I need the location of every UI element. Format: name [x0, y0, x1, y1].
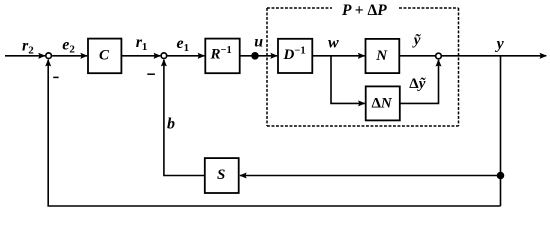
svg-text:Δỹ: Δỹ: [409, 76, 425, 92]
minus sign at junction 2: [147, 73, 155, 75]
svg-text:ΔN: ΔN: [372, 96, 393, 112]
wire: junction 2 to block R^-1: [168, 55, 205, 57]
minus sign at junction 1: [53, 76, 58, 78]
summing junction 3: [436, 53, 442, 59]
svg-text:P + ΔP: P + ΔP: [342, 2, 387, 19]
wire: input r2 into summing junction 1: [5, 55, 45, 57]
wire: junction 1 to block C: [52, 55, 87, 57]
node (dot) on feedback: [497, 172, 505, 180]
block C: [88, 39, 121, 74]
svg-text:r1: r1: [136, 34, 148, 53]
wire: S to junction 2 (signal b): [164, 60, 205, 176]
wire: junction 3 to output y: [442, 55, 546, 57]
svg-text:r2: r2: [22, 37, 34, 56]
svg-text:ỹ: ỹ: [412, 33, 421, 49]
svg-text:u: u: [254, 34, 263, 51]
block S: [205, 158, 239, 193]
node u (dot): [251, 52, 259, 60]
summing junction 2 (node e1): [161, 53, 167, 59]
block dN: [366, 86, 400, 120]
wire: N to summing junction 3: [399, 55, 435, 57]
wire: C to summing junction 2: [121, 55, 160, 57]
wire: D^-1 to N: [312, 55, 364, 57]
wire: dN right, up to junction 3: [400, 60, 439, 104]
wire: branch down from output: [500, 56, 502, 206]
dashed box P + dP: [267, 8, 459, 126]
wire: branch at w down to dN: [331, 56, 365, 104]
block N: [366, 39, 400, 73]
wire: outer feedback bottom to junction 1: [48, 60, 500, 206]
wire: dot left into S: [240, 175, 501, 177]
svg-text:b: b: [167, 116, 175, 133]
block R^-1: [205, 39, 239, 74]
svg-text:S: S: [217, 167, 225, 183]
svg-text:e1: e1: [177, 35, 190, 54]
wire: R^-1 to D^-1 through node u: [240, 55, 277, 57]
svg-text:C: C: [99, 48, 110, 64]
svg-text:N: N: [375, 48, 388, 64]
summing junction 1 (node e2): [46, 53, 52, 59]
block D^-1: [278, 39, 312, 73]
svg-text:w: w: [328, 34, 339, 51]
svg-text:y: y: [495, 36, 505, 53]
svg-text:e2: e2: [62, 37, 75, 56]
